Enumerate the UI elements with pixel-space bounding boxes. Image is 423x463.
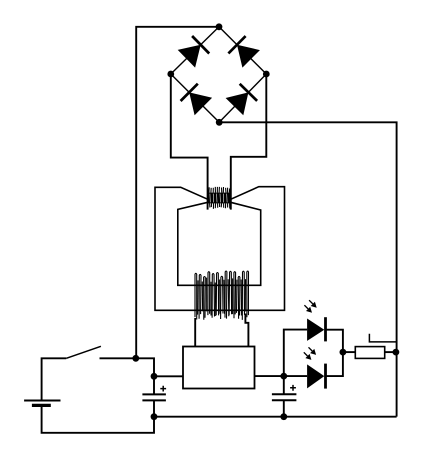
node: R1 / right rail junction: [393, 349, 400, 356]
node: C2 / ground rail junction: [280, 413, 287, 420]
wire: transformer outer core loop: [155, 187, 285, 311]
LED D6 cathode bar: [324, 364, 327, 389]
wire: switch node right and down to block input node: [136, 358, 154, 376]
wire: LED D5 cathode to common node: [326, 330, 343, 352]
diode D1 (bridge, left AC to DC+): [178, 36, 210, 68]
LED D6 light arrows: [309, 347, 313, 351]
wire: bridge DC- to right rail down to bottom rail: [219, 122, 396, 416]
wire: bridge edge left-top: [171, 27, 219, 74]
wire: transformer inner core loop: [178, 202, 261, 285]
LED D6 triangle: [307, 364, 324, 388]
wire: bottom rail: [154, 416, 397, 418]
battery BT1 positive plate: [24, 400, 60, 402]
wire: R1 right to right rail: [385, 351, 396, 353]
label: C1 polarity +: [160, 386, 166, 392]
wire: battery positive up to switch: [42, 358, 67, 400]
wire: LED node to R1: [343, 351, 355, 353]
node: block output / C2 / LED anode junction: [280, 373, 287, 380]
wire: left AC node down to primary left lead: [171, 74, 208, 210]
LED D5 light arrows: [309, 300, 313, 304]
node: bridge bottom (DC-): [216, 119, 223, 126]
wire: LED D6 cathode to common node: [326, 352, 343, 376]
wire: junction to block left pin: [154, 375, 183, 377]
wire: battery negative to lower return rail: [42, 405, 154, 432]
wire: output node to LED2 anode: [284, 375, 307, 377]
capacitor C2 bottom plate: [272, 399, 297, 401]
battery BT1 negative plate: [32, 404, 51, 407]
capacitor C1 bottom plate: [142, 399, 166, 401]
block U1: driver module rectangle: [183, 347, 255, 389]
diode D4 (bridge, DC- to right AC): [226, 84, 258, 116]
node: bridge right (AC): [263, 71, 270, 78]
resistor R1 body: [355, 347, 384, 359]
switch S1 lever: [66, 346, 101, 358]
wire: secondary right lead to block (with jog): [245, 314, 248, 347]
wire: C1 bottom to ground rail: [153, 400, 155, 416]
wire: right AC node down to primary right lead: [231, 74, 266, 210]
label: C2 polarity +: [290, 385, 296, 391]
inductor W2: transformer secondary winding scribble: [195, 271, 249, 320]
wire: bridge edge right-top: [219, 27, 266, 74]
wire: switch contact to node: [100, 357, 136, 359]
node: bridge left (AC): [167, 71, 174, 78]
node: switch output / left rail junction: [132, 355, 139, 362]
diode D3 (bridge, DC- to left AC): [181, 84, 213, 116]
wire: output node down to C2 top plate: [283, 376, 285, 394]
wire: block right pin to output node: [255, 375, 284, 377]
wire: output node up to LED1 anode: [284, 330, 307, 377]
wire: bridge DC+ to left rail down to switch node: [136, 27, 219, 359]
node: LED cathodes / R1 left junction: [340, 349, 347, 356]
node: C1 / ground rail junction: [151, 413, 158, 420]
node: block input / C1 positive junction: [151, 373, 158, 380]
capacitor C2 top plate: [272, 393, 297, 395]
wire: bridge edge bottom-left: [171, 74, 219, 122]
inductor W1: transformer primary winding scribble: [208, 187, 231, 209]
wire: C2 bottom to ground rail: [283, 400, 285, 416]
wire: junction down to C1 top plate: [153, 376, 155, 394]
wire: bridge edge bottom-right: [219, 74, 266, 122]
wire: secondary left lead to block: [194, 318, 196, 347]
LED D5 triangle: [307, 319, 324, 341]
node: bridge top (DC+): [216, 23, 223, 30]
LED D5 cathode bar: [324, 317, 327, 341]
wire: R1 trimmer tap to right rail: [369, 334, 396, 342]
diode D2 (bridge, right AC to DC+): [228, 36, 260, 68]
capacitor C1 top plate: [142, 393, 166, 395]
